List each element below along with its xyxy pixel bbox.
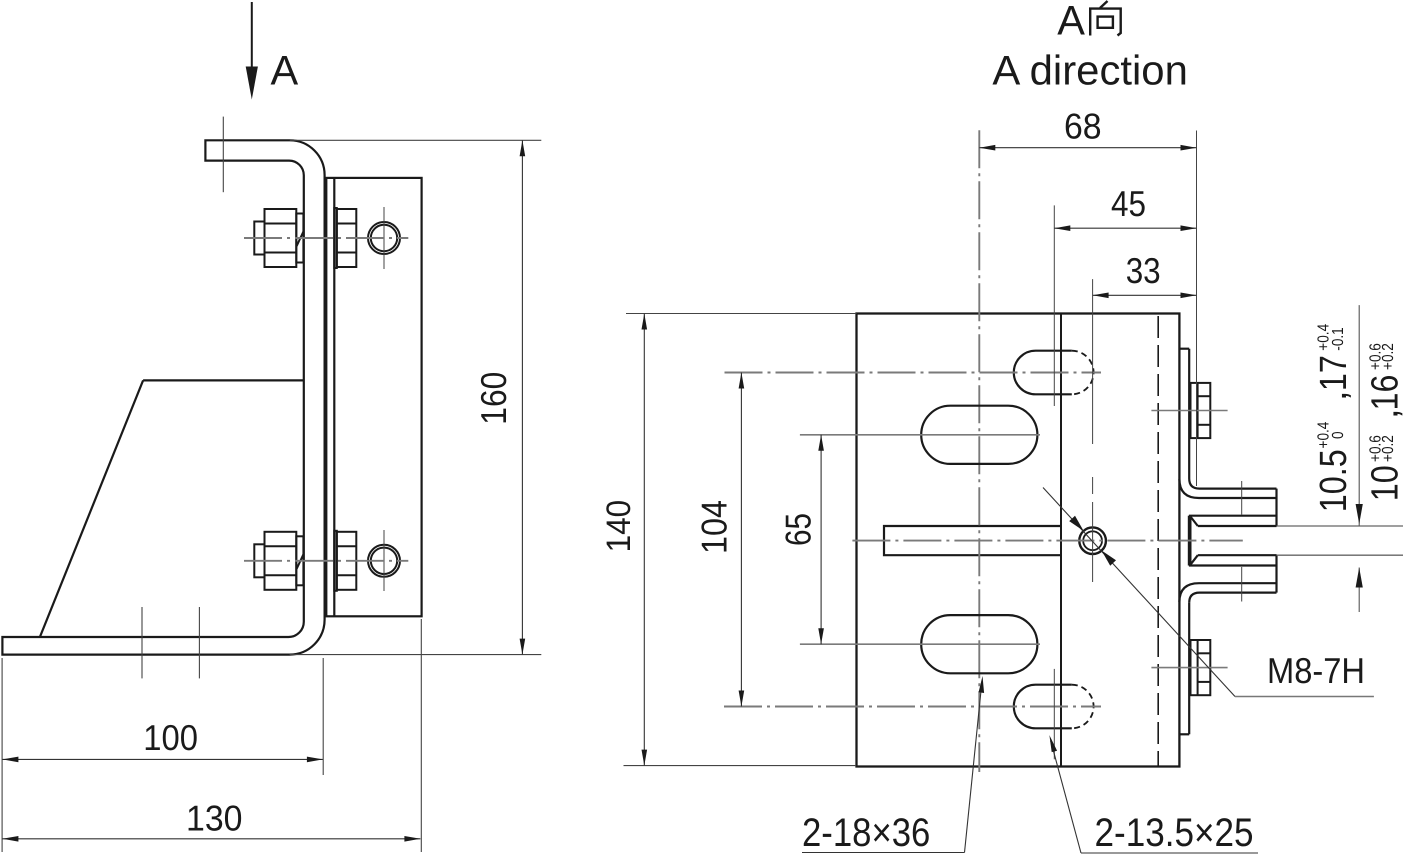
- extension line M8 for 33: [1092, 279, 1094, 444]
- bottom flange hole centerline 1: [141, 607, 143, 678]
- svg-text:160: 160: [473, 372, 514, 425]
- dimension 33: [1093, 294, 1197, 296]
- bolt lower: [254, 531, 356, 591]
- bolt right-bottom: [1191, 640, 1211, 695]
- bolt right-top: [1191, 383, 1211, 438]
- slot 13.5x25 top (hidden part): [1072, 351, 1094, 395]
- tolerance text 10.5 +0.4/0 , 17 +0.4/-0.1: [1313, 324, 1355, 512]
- tab hole centerline upper: [1241, 481, 1243, 515]
- slot 18x36 upper: [921, 406, 1037, 464]
- slot 13.5x25 bottom (solid part): [1014, 685, 1072, 729]
- slot upper-middle centerline horizontal: [800, 434, 1040, 436]
- bend fold line: [1060, 314, 1062, 767]
- svg-text:2-13.5×25: 2-13.5×25: [1095, 811, 1254, 855]
- top flange hole centerline: [222, 117, 224, 193]
- svg-text:100: 100: [143, 717, 198, 758]
- slot lower-middle centerline horizontal: [800, 643, 1040, 645]
- svg-text:+0.2: +0.2: [1380, 343, 1397, 370]
- svg-text:2-18×36: 2-18×36: [802, 811, 930, 855]
- svg-text:16: 16: [1365, 375, 1403, 411]
- extension 140 bottom: [624, 765, 857, 767]
- svg-text:65: 65: [778, 513, 819, 546]
- extension line right for 68/45/33: [1196, 131, 1198, 487]
- tab hole centerline lower: [1241, 567, 1243, 602]
- extension 140 top: [626, 313, 857, 315]
- bolt upper centerline: [244, 237, 408, 239]
- slot bottom vertical centerline: [1053, 669, 1055, 759]
- extension line left (100/130): [1, 658, 3, 852]
- tapped hole M8: [1079, 527, 1106, 554]
- svg-text:0: 0: [1330, 431, 1347, 439]
- dimension 140: [643, 314, 645, 766]
- hole upper centerline: [383, 207, 385, 269]
- bolt upper: [254, 208, 356, 268]
- dimension 68: [979, 147, 1196, 149]
- svg-text:104: 104: [693, 500, 734, 554]
- svg-text:A: A: [1057, 0, 1085, 43]
- extension line 130 right: [420, 619, 422, 852]
- bottom flange hole centerline 2: [198, 607, 200, 678]
- svg-text:10.5: 10.5: [1313, 449, 1355, 512]
- body outline: [857, 314, 1180, 767]
- main horizontal centerline: [852, 540, 1242, 542]
- slot 13.5x25 bottom (hidden part): [1072, 685, 1094, 729]
- svg-text:10: 10: [1365, 465, 1403, 501]
- svg-text:17: 17: [1313, 355, 1355, 391]
- dimension 130: [2, 838, 420, 840]
- label 2-13.5x25 leader: [1051, 741, 1081, 853]
- svg-text:68: 68: [1064, 105, 1102, 146]
- bolt right-top centerline: [1151, 410, 1227, 412]
- slot bottom centerline horizontal: [724, 706, 1101, 708]
- slot top centerline horizontal: [725, 372, 1102, 374]
- view arrow A: [246, 2, 258, 100]
- label 2-18x36 underline: [802, 852, 965, 854]
- central slot front plate: [884, 526, 1061, 555]
- slot 18x36 lower: [921, 615, 1037, 673]
- extension line 100 right: [322, 658, 324, 775]
- dimension 65: [820, 435, 822, 644]
- label 2-13.5x25 underline: [1081, 852, 1258, 854]
- projection line top (160 ref): [290, 139, 542, 141]
- main vertical centerline: [978, 130, 980, 772]
- svg-text:+0.2: +0.2: [1380, 435, 1397, 462]
- dimension 45: [1054, 227, 1196, 229]
- slot top vertical centerline / 45 extension: [1053, 205, 1055, 406]
- svg-text:A: A: [271, 47, 299, 94]
- dimension 100: [2, 758, 323, 760]
- leader M8 through hole: [1043, 488, 1235, 697]
- svg-text:130: 130: [186, 797, 243, 838]
- M8 hole vertical centerline: [1092, 477, 1094, 582]
- dimension 160: [521, 140, 523, 654]
- hole lower in side plate: [368, 545, 400, 577]
- dimension 104: [740, 373, 742, 707]
- projection line bottom (160 ref): [290, 654, 542, 656]
- svg-text:140: 140: [600, 500, 638, 553]
- svg-text:A direction: A direction: [992, 46, 1188, 93]
- tolerance dimension line: [1358, 305, 1360, 612]
- glyph xiang (direction) drawn: [1090, 1, 1121, 36]
- hole lower centerline: [383, 530, 385, 591]
- svg-text:45: 45: [1111, 183, 1146, 224]
- bolt right-bottom centerline: [1151, 667, 1227, 669]
- slot edge extension lines: [1277, 525, 1403, 527]
- L-bracket profile: [2, 140, 324, 654]
- hole upper in side plate: [368, 222, 400, 254]
- label 2-18x36 leader: [965, 681, 983, 853]
- gusset plate: [40, 380, 304, 637]
- side plate edge profile: [1179, 349, 1276, 735]
- mating bracket side plate (face view): [326, 178, 421, 616]
- svg-text:33: 33: [1126, 250, 1161, 291]
- slot 13.5x25 top (solid part): [1014, 351, 1072, 395]
- tolerance text 10 +0.6/+0.2 , 16 +0.6/+0.2: [1365, 343, 1403, 501]
- svg-text:-0.1: -0.1: [1330, 327, 1347, 351]
- svg-text:,: ,: [1313, 390, 1355, 401]
- bolt lower centerline: [244, 560, 408, 562]
- svg-text:M8-7H: M8-7H: [1267, 650, 1365, 691]
- hidden edge dashed: [1157, 316, 1159, 767]
- M8-7H label underline: [1235, 696, 1374, 698]
